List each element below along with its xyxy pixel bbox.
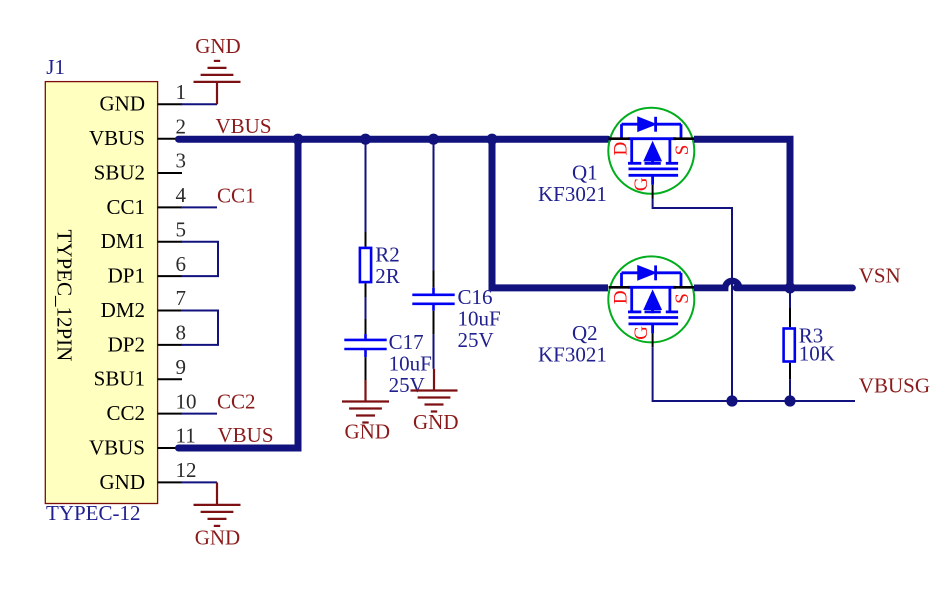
svg-text:25V: 25V	[458, 328, 494, 352]
svg-text:3: 3	[176, 149, 187, 173]
pin lead C16 bottom	[433, 311, 435, 335]
svg-text:C17: C17	[389, 330, 424, 354]
svg-text:J1: J1	[46, 55, 65, 79]
ground symbol C16	[411, 369, 458, 412]
pin 12 (GND)	[100, 458, 197, 494]
wire R3 to VBUSG	[789, 379, 791, 401]
svg-text:GND: GND	[413, 410, 459, 434]
svg-text:Q2: Q2	[572, 321, 598, 345]
wire loop DM1-DP1 (pins 5-6)	[181, 242, 218, 276]
connector J1 body	[45, 82, 157, 504]
svg-text:SBU1: SBU1	[94, 367, 145, 391]
svg-text:VSN: VSN	[859, 264, 901, 288]
svg-text:7: 7	[176, 286, 187, 310]
wire hop arch over gate wire	[722, 278, 743, 288]
wire bus to R2	[365, 139, 367, 232]
svg-text:1: 1	[176, 80, 187, 104]
pin 9 (SBU1)	[94, 355, 186, 391]
svg-text:VBUS: VBUS	[89, 126, 145, 150]
pin 11 (VBUS)	[89, 424, 196, 460]
pin 4 (CC1)	[106, 183, 186, 219]
svg-text:KF3021: KF3021	[538, 182, 607, 206]
svg-text:10uF: 10uF	[389, 352, 432, 376]
svg-text:GND: GND	[195, 34, 241, 58]
svg-text:10: 10	[176, 389, 197, 413]
svg-text:CC1: CC1	[217, 183, 256, 207]
svg-text:2R: 2R	[375, 264, 400, 288]
svg-text:VBUS: VBUS	[89, 435, 145, 459]
svg-text:10uF: 10uF	[458, 307, 501, 331]
svg-text:G: G	[631, 177, 652, 191]
ground symbol C17	[342, 380, 389, 423]
pin 3 (SBU2)	[94, 149, 186, 185]
svg-text:9: 9	[176, 355, 187, 379]
svg-text:KF3021: KF3021	[538, 343, 607, 367]
svg-text:Q1: Q1	[572, 161, 598, 185]
wire C16 to ground	[433, 334, 435, 368]
svg-text:CC2: CC2	[217, 390, 256, 414]
svg-text:CC1: CC1	[106, 195, 145, 219]
junction node (C16 tap)	[428, 134, 439, 145]
wire R2 to C17	[365, 297, 367, 319]
junction node (Q2 branch)	[486, 134, 497, 145]
wire Q1 source to VSN	[694, 139, 790, 288]
svg-text:S: S	[672, 293, 693, 304]
svg-text:11: 11	[176, 424, 196, 448]
svg-text:VBUS: VBUS	[218, 423, 274, 447]
pin lead C17 bottom	[365, 357, 367, 380]
pin 6 (DP1)	[108, 252, 186, 288]
svg-text:2: 2	[176, 114, 187, 138]
svg-text:VBUS: VBUS	[216, 114, 272, 138]
wire VBUS drop to Q2 drain	[492, 139, 608, 288]
wire pin12 to ground	[181, 481, 217, 483]
wire CC1 (pin 4)	[181, 206, 217, 208]
svg-text:12: 12	[176, 458, 197, 482]
svg-text:G: G	[631, 326, 652, 340]
svg-text:DP1: DP1	[108, 264, 145, 288]
svg-text:VBUSG: VBUSG	[859, 373, 930, 397]
pin lead R2 bottom	[365, 283, 367, 297]
svg-text:SBU2: SBU2	[94, 160, 145, 184]
wire CC2 (pin 10)	[181, 413, 217, 415]
svg-text:GND: GND	[195, 526, 241, 550]
junction node (R2 tap)	[360, 134, 371, 145]
wire VBUS return from pin 11	[179, 139, 299, 448]
resistor R2	[360, 248, 371, 282]
svg-text:10K: 10K	[799, 342, 835, 366]
resistor R3	[784, 329, 795, 362]
wire loop DM2-DP2 (pins 7-8)	[181, 311, 218, 345]
pin 8 (DP2)	[108, 321, 186, 357]
svg-text:5: 5	[176, 218, 187, 242]
pin lead R3 bottom	[789, 363, 791, 380]
svg-text:GND: GND	[100, 470, 146, 494]
svg-text:DM1: DM1	[101, 229, 145, 253]
pin 2 (VBUS)	[89, 114, 186, 150]
wire Q2 gate / VBUSG net	[653, 347, 855, 401]
junction node (VSN / Q1 source riser)	[784, 282, 795, 293]
svg-text:R2: R2	[375, 243, 400, 267]
svg-text:DM2: DM2	[101, 298, 145, 322]
svg-text:C16: C16	[458, 285, 493, 309]
capacitor C17	[344, 334, 386, 357]
junction node (R3 on VBUSG)	[784, 395, 795, 406]
wire bus to C16	[433, 139, 435, 270]
svg-text:DP2: DP2	[108, 332, 145, 356]
transistor Q1	[608, 108, 694, 199]
pin 10 (CC2)	[106, 389, 196, 425]
wire VSN (Q2 source to label) with crossover hop	[694, 284, 853, 291]
svg-text:TYPEC-12: TYPEC-12	[46, 501, 141, 525]
ground symbol top (pin 1)	[194, 61, 241, 104]
junction node (Q1 gate on VBUSG)	[726, 395, 737, 406]
wire VBUS main bus (pin 2 to Q1 drain)	[179, 136, 609, 143]
junction node (pin11 riser on bus)	[292, 134, 303, 145]
wire VSN to R3	[789, 288, 791, 308]
svg-text:6: 6	[176, 252, 187, 276]
svg-text:GND: GND	[100, 92, 146, 116]
svg-text:D: D	[611, 142, 632, 156]
pin lead R2 top	[365, 232, 367, 247]
pin lead R3 top	[789, 308, 791, 327]
pin 7 (DM2)	[101, 286, 186, 322]
transistor Q2	[608, 256, 694, 347]
pin lead C16 top	[433, 271, 435, 288]
wire Q1 gate to VBUSG	[653, 199, 732, 402]
capacitor C16	[412, 288, 454, 311]
pin lead C17 top	[365, 319, 367, 334]
svg-text:4: 4	[176, 183, 187, 207]
svg-text:25V: 25V	[389, 373, 425, 397]
svg-text:D: D	[611, 290, 632, 304]
svg-text:TYPEC_12PIN: TYPEC_12PIN	[53, 230, 77, 362]
svg-text:8: 8	[176, 321, 187, 345]
svg-text:S: S	[672, 145, 693, 156]
pin 1 (GND)	[100, 80, 187, 116]
ground symbol bottom (pin 12)	[194, 482, 241, 526]
svg-text:CC2: CC2	[106, 401, 145, 425]
wire pin1 to ground	[181, 103, 217, 105]
svg-text:GND: GND	[345, 420, 391, 444]
pin 5 (DM1)	[101, 218, 186, 254]
